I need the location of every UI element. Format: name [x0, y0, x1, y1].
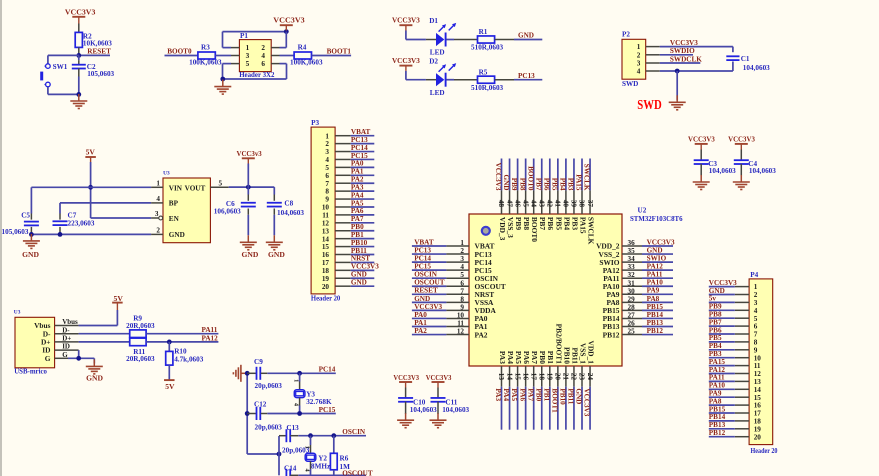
svg-text:510R,0603: 510R,0603: [471, 44, 504, 52]
svg-text:PB12: PB12: [709, 429, 726, 437]
svg-text:1: 1: [293, 379, 300, 382]
svg-text:46: 46: [513, 200, 521, 208]
svg-text:20R,0603: 20R,0603: [126, 355, 155, 363]
svg-text:36: 36: [628, 239, 636, 247]
svg-text:C10: C10: [413, 398, 426, 406]
svg-text:19: 19: [322, 275, 330, 283]
svg-text:104,0603: 104,0603: [442, 406, 469, 414]
svg-text:D+: D+: [62, 335, 71, 343]
svg-text:OSCOUT: OSCOUT: [342, 470, 373, 476]
svg-text:C11: C11: [445, 398, 457, 406]
svg-text:3: 3: [246, 52, 250, 60]
svg-text:19: 19: [754, 425, 762, 433]
svg-text:PB4: PB4: [559, 178, 567, 191]
svg-text:26: 26: [628, 320, 636, 328]
svg-text:VCC3v3: VCC3v3: [237, 149, 262, 158]
svg-text:PA6: PA6: [351, 207, 364, 215]
svg-text:VCC3V3: VCC3V3: [392, 56, 420, 65]
svg-text:4: 4: [303, 469, 310, 472]
svg-text:PA10: PA10: [709, 382, 726, 390]
svg-text:16: 16: [322, 251, 330, 259]
svg-text:15: 15: [754, 394, 762, 402]
svg-text:PB9: PB9: [709, 303, 722, 311]
svg-text:40: 40: [562, 200, 570, 208]
svg-text:19: 19: [546, 373, 554, 381]
svg-text:PB13: PB13: [647, 319, 664, 327]
svg-text:PA2: PA2: [351, 176, 364, 184]
svg-text:18: 18: [754, 418, 762, 426]
svg-text:PA7: PA7: [526, 388, 534, 401]
svg-text:VCC3V3: VCC3V3: [494, 163, 502, 191]
svg-text:PB5: PB5: [554, 217, 563, 230]
svg-text:PA11: PA11: [647, 271, 663, 279]
svg-text:PA8: PA8: [647, 295, 660, 303]
svg-text:5: 5: [219, 180, 223, 188]
svg-text:RESET: RESET: [87, 47, 111, 55]
svg-text:5: 5: [754, 315, 758, 323]
svg-text:41: 41: [554, 200, 562, 208]
svg-text:VCC3V3: VCC3V3: [273, 16, 305, 25]
svg-text:5V: 5V: [165, 382, 175, 391]
svg-text:8: 8: [754, 339, 758, 347]
svg-text:38: 38: [578, 200, 586, 208]
svg-text:GND: GND: [242, 250, 259, 259]
svg-text:44: 44: [529, 200, 537, 208]
svg-text:14: 14: [754, 386, 762, 394]
svg-text:VCC3V3: VCC3V3: [426, 373, 452, 382]
svg-text:17: 17: [754, 410, 762, 418]
svg-text:PB15: PB15: [709, 405, 726, 413]
svg-text:4: 4: [156, 195, 160, 203]
svg-text:17: 17: [529, 373, 537, 381]
svg-text:ID: ID: [62, 343, 70, 351]
svg-text:SWCLK: SWCLK: [583, 164, 591, 191]
svg-text:U3: U3: [14, 310, 21, 316]
svg-text:4: 4: [754, 307, 758, 315]
svg-text:C12: C12: [254, 400, 267, 408]
svg-text:3: 3: [754, 299, 758, 307]
svg-text:10: 10: [754, 354, 762, 362]
svg-text:P4: P4: [750, 271, 758, 279]
svg-text:104,0603: 104,0603: [743, 64, 770, 72]
svg-text:PB14: PB14: [709, 413, 726, 421]
svg-text:2: 2: [754, 291, 758, 299]
svg-text:PB0: PB0: [538, 351, 547, 364]
svg-text:GND: GND: [518, 32, 534, 40]
svg-text:OSCIN: OSCIN: [342, 428, 366, 436]
svg-text:GND: GND: [169, 231, 185, 239]
svg-text:BOOT0: BOOT0: [167, 48, 192, 56]
svg-text:SWD: SWD: [637, 98, 662, 113]
svg-text:VCC3V3: VCC3V3: [670, 39, 698, 47]
svg-text:PA3: PA3: [494, 388, 502, 401]
svg-text:GND: GND: [502, 175, 510, 191]
svg-text:NRST: NRST: [351, 255, 370, 263]
svg-text:VCC3V3: VCC3V3: [65, 7, 96, 16]
svg-text:PA12: PA12: [202, 334, 219, 342]
svg-text:104,0603: 104,0603: [410, 406, 437, 414]
svg-text:C1: C1: [741, 55, 750, 63]
svg-text:PB3: PB3: [709, 350, 722, 358]
svg-text:Header 3X2: Header 3X2: [239, 71, 275, 79]
svg-text:P2: P2: [622, 31, 630, 39]
svg-text:PB14: PB14: [647, 311, 664, 319]
svg-text:PB7: PB7: [538, 217, 547, 230]
svg-text:PB0: PB0: [351, 223, 364, 231]
svg-text:Header 20: Header 20: [311, 294, 341, 302]
svg-text:PA0: PA0: [351, 160, 364, 168]
svg-text:5V: 5V: [86, 148, 96, 157]
svg-text:PA4: PA4: [502, 388, 510, 401]
svg-text:PA15: PA15: [578, 217, 587, 234]
svg-text:SWDCLK: SWDCLK: [670, 55, 702, 63]
svg-text:C8: C8: [284, 200, 293, 208]
svg-text:16: 16: [521, 373, 529, 381]
svg-text:10: 10: [322, 204, 330, 212]
svg-text:47: 47: [505, 200, 513, 208]
svg-text:13: 13: [322, 227, 330, 235]
svg-text:PB12: PB12: [603, 330, 620, 339]
svg-text:VDD_3: VDD_3: [498, 217, 507, 241]
svg-text:20p,0603: 20p,0603: [255, 424, 283, 432]
svg-text:PB8: PB8: [518, 178, 526, 191]
svg-text:VCC3V3: VCC3V3: [351, 263, 379, 271]
svg-text:13: 13: [754, 378, 762, 386]
svg-text:5: 5: [460, 271, 464, 279]
svg-text:D1: D1: [429, 17, 438, 25]
svg-text:PA5: PA5: [514, 351, 523, 364]
svg-text:PB6: PB6: [546, 217, 555, 230]
svg-text:PA12: PA12: [709, 366, 726, 374]
svg-text:LED: LED: [430, 89, 445, 97]
svg-text:30: 30: [628, 287, 636, 295]
svg-text:BP: BP: [169, 200, 179, 208]
svg-text:4.7k,0603: 4.7k,0603: [174, 355, 204, 363]
svg-text:VCC3V3: VCC3V3: [647, 238, 675, 246]
svg-text:4: 4: [460, 263, 464, 271]
svg-text:PB5: PB5: [709, 334, 722, 342]
svg-text:PB10: PB10: [351, 239, 368, 247]
svg-text:R6: R6: [340, 454, 349, 462]
svg-text:PB10: PB10: [562, 347, 571, 364]
svg-text:25: 25: [628, 328, 636, 336]
svg-text:PA7: PA7: [530, 351, 539, 364]
svg-text:PA6: PA6: [522, 351, 531, 364]
svg-text:EN: EN: [169, 215, 180, 223]
svg-text:PB1: PB1: [542, 388, 550, 401]
svg-text:5V: 5V: [114, 294, 124, 303]
svg-text:45: 45: [521, 200, 529, 208]
svg-text:PB11: PB11: [567, 388, 575, 404]
svg-text:PA3: PA3: [351, 183, 364, 191]
svg-text:PA4: PA4: [506, 351, 515, 364]
svg-text:1: 1: [637, 43, 641, 51]
svg-text:D2: D2: [429, 57, 438, 65]
svg-text:SW1: SW1: [53, 63, 68, 71]
svg-text:C5: C5: [21, 212, 30, 220]
svg-text:20: 20: [754, 433, 762, 441]
svg-text:510R,0603: 510R,0603: [471, 84, 504, 92]
svg-text:VCC3V3: VCC3V3: [709, 279, 737, 287]
svg-text:PB2/BOOT1: PB2/BOOT1: [554, 324, 563, 365]
svg-text:5: 5: [246, 60, 250, 68]
svg-text:R1: R1: [479, 28, 488, 36]
svg-text:PB4: PB4: [709, 342, 722, 350]
svg-text:33: 33: [628, 263, 636, 271]
svg-text:Header 20: Header 20: [751, 447, 778, 455]
svg-text:PB8: PB8: [709, 311, 722, 319]
svg-text:12: 12: [754, 370, 762, 378]
svg-text:GND: GND: [709, 287, 725, 295]
svg-text:GND: GND: [351, 271, 367, 279]
svg-text:7: 7: [754, 331, 758, 339]
svg-text:10K,0603: 10K,0603: [83, 39, 112, 47]
svg-text:PA8: PA8: [709, 397, 722, 405]
svg-text:21: 21: [562, 373, 570, 381]
svg-text:6: 6: [460, 279, 464, 287]
svg-text:PB4: PB4: [562, 217, 571, 230]
svg-text:C9: C9: [254, 358, 263, 366]
svg-text:Y2: Y2: [318, 454, 327, 462]
svg-text:100K,0603: 100K,0603: [189, 59, 222, 67]
svg-text:12: 12: [457, 328, 465, 336]
svg-text:20: 20: [554, 373, 562, 381]
svg-text:PC14: PC14: [319, 366, 336, 374]
svg-text:23: 23: [578, 373, 586, 381]
svg-text:20: 20: [322, 283, 330, 291]
svg-text:1: 1: [325, 132, 329, 140]
svg-text:R4: R4: [298, 43, 307, 51]
svg-text:18: 18: [537, 373, 545, 381]
svg-text:LED: LED: [430, 49, 445, 57]
svg-text:VBAT: VBAT: [351, 128, 371, 136]
svg-text:PA7: PA7: [351, 215, 364, 223]
svg-text:PA6: PA6: [518, 388, 526, 401]
svg-text:105,0603: 105,0603: [2, 228, 29, 236]
svg-text:PB15: PB15: [647, 303, 664, 311]
svg-text:104,0603: 104,0603: [277, 209, 304, 217]
svg-text:PB9: PB9: [514, 217, 523, 230]
svg-text:PA4: PA4: [351, 191, 364, 199]
svg-text:VDD_1: VDD_1: [586, 340, 595, 364]
svg-text:104,0603: 104,0603: [749, 167, 776, 175]
svg-text:PB1: PB1: [546, 351, 555, 364]
svg-text:PA15: PA15: [709, 358, 726, 366]
svg-text:BOOT1: BOOT1: [550, 388, 558, 413]
svg-text:C7: C7: [68, 212, 77, 220]
svg-text:11: 11: [322, 212, 329, 220]
svg-text:15: 15: [322, 243, 330, 251]
svg-text:2: 2: [156, 227, 160, 235]
svg-text:223,0603: 223,0603: [68, 220, 95, 228]
svg-text:2: 2: [261, 44, 265, 52]
svg-text:6: 6: [754, 323, 758, 331]
svg-text:1: 1: [303, 446, 310, 449]
svg-text:D-: D-: [62, 326, 70, 334]
svg-text:4: 4: [325, 156, 329, 164]
svg-text:105,0603: 105,0603: [87, 70, 114, 78]
svg-text:43: 43: [537, 200, 545, 208]
svg-text:PB11: PB11: [570, 347, 579, 364]
svg-text:PB13: PB13: [709, 421, 726, 429]
svg-text:PC13: PC13: [351, 136, 368, 144]
svg-text:PB0: PB0: [534, 388, 542, 401]
svg-text:35: 35: [628, 247, 636, 255]
svg-text:106,0603: 106,0603: [214, 208, 241, 216]
svg-text:SWCLK: SWCLK: [586, 217, 595, 245]
svg-text:11: 11: [457, 320, 464, 328]
svg-text:9: 9: [325, 196, 329, 204]
svg-text:13: 13: [497, 373, 505, 381]
svg-text:14: 14: [505, 373, 513, 381]
svg-text:4: 4: [261, 52, 265, 60]
svg-text:8: 8: [325, 188, 329, 196]
svg-text:PB7: PB7: [709, 318, 722, 326]
svg-text:PC15: PC15: [351, 152, 368, 160]
svg-text:29: 29: [628, 295, 636, 303]
svg-text:1: 1: [246, 44, 250, 52]
svg-text:G: G: [45, 354, 51, 363]
svg-text:VSS_1: VSS_1: [578, 343, 587, 364]
svg-text:PB11: PB11: [351, 247, 367, 255]
svg-text:9: 9: [754, 346, 758, 354]
svg-text:VCC3V3: VCC3V3: [392, 15, 420, 24]
svg-text:PA5: PA5: [510, 388, 518, 401]
svg-text:U3: U3: [163, 171, 170, 177]
svg-text:GND: GND: [86, 373, 103, 382]
svg-text:PB10: PB10: [559, 388, 567, 405]
svg-text:28: 28: [628, 303, 636, 311]
svg-text:PB3: PB3: [570, 217, 579, 230]
svg-text:VCC3V3: VCC3V3: [728, 134, 755, 143]
svg-text:2: 2: [460, 247, 464, 255]
svg-text:1: 1: [460, 239, 464, 247]
svg-text:PC13: PC13: [518, 72, 535, 80]
svg-text:1: 1: [754, 283, 758, 291]
svg-text:Y3: Y3: [306, 390, 315, 398]
svg-text:USB-mrico: USB-mrico: [14, 368, 47, 376]
svg-text:Vbus: Vbus: [62, 318, 78, 326]
svg-text:PA11: PA11: [202, 326, 218, 334]
svg-text:24: 24: [586, 373, 594, 381]
svg-text:2: 2: [637, 51, 641, 59]
svg-text:22: 22: [570, 373, 578, 381]
svg-text:PB5: PB5: [550, 178, 558, 191]
svg-text:PB6: PB6: [709, 326, 722, 334]
svg-text:U2: U2: [638, 207, 647, 215]
svg-text:PB12: PB12: [647, 327, 664, 335]
svg-text:39: 39: [570, 200, 578, 208]
svg-text:GND: GND: [351, 278, 367, 286]
svg-text:R3: R3: [201, 43, 210, 51]
svg-text:PA15: PA15: [575, 174, 583, 191]
svg-text:PA10: PA10: [647, 279, 664, 287]
svg-text:PB1: PB1: [351, 231, 364, 239]
svg-text:R5: R5: [479, 68, 488, 76]
svg-text:11: 11: [754, 362, 761, 370]
svg-text:42: 42: [546, 200, 554, 208]
svg-text:5v: 5v: [709, 295, 717, 303]
svg-text:PA9: PA9: [647, 287, 660, 295]
svg-text:9: 9: [460, 303, 464, 311]
svg-text:4: 4: [293, 403, 300, 406]
svg-text:PA5: PA5: [351, 199, 364, 207]
svg-text:SWD: SWD: [622, 80, 638, 88]
svg-text:PB6: PB6: [542, 178, 550, 191]
svg-text:3: 3: [460, 255, 464, 263]
svg-text:4: 4: [637, 68, 641, 76]
svg-text:6: 6: [325, 172, 329, 180]
svg-text:VCC3V3: VCC3V3: [393, 373, 419, 382]
svg-text:7: 7: [325, 180, 329, 188]
svg-text:GND: GND: [647, 246, 663, 254]
svg-text:VCC3V3: VCC3V3: [583, 388, 591, 416]
svg-text:3: 3: [325, 148, 329, 156]
svg-text:PB9: PB9: [510, 178, 518, 191]
svg-text:2: 2: [325, 140, 329, 148]
svg-text:PB7: PB7: [534, 178, 542, 191]
svg-text:GND: GND: [575, 388, 583, 404]
svg-text:37: 37: [586, 200, 594, 208]
svg-text:PC15: PC15: [319, 406, 336, 414]
svg-text:1: 1: [156, 180, 160, 188]
svg-text:14: 14: [322, 235, 330, 243]
svg-text:16: 16: [754, 402, 762, 410]
svg-text:BOOT0: BOOT0: [526, 166, 534, 191]
svg-text:3: 3: [637, 60, 641, 68]
svg-text:10: 10: [457, 311, 465, 319]
svg-text:PA9: PA9: [709, 390, 722, 398]
svg-text:VSS_3: VSS_3: [506, 217, 515, 238]
svg-text:PA1: PA1: [351, 168, 364, 176]
svg-text:GND: GND: [22, 250, 39, 259]
svg-text:31: 31: [628, 279, 636, 287]
svg-text:VOUT: VOUT: [185, 184, 206, 192]
svg-text:PA12: PA12: [647, 263, 664, 271]
svg-text:SWIO: SWIO: [647, 255, 667, 263]
svg-text:PC14: PC14: [351, 144, 368, 152]
svg-text:20R,0603: 20R,0603: [126, 322, 155, 330]
svg-text:7: 7: [460, 287, 464, 295]
svg-text:VCC3V3: VCC3V3: [688, 134, 715, 143]
svg-text:P1: P1: [240, 32, 248, 40]
svg-text:BOOT0: BOOT0: [530, 217, 539, 242]
svg-text:SWDIO: SWDIO: [670, 47, 695, 55]
svg-text:VIN: VIN: [169, 184, 183, 192]
svg-text:P3: P3: [311, 119, 319, 127]
svg-text:BOOT1: BOOT1: [327, 48, 352, 56]
svg-text:17: 17: [322, 259, 330, 267]
svg-text:STM32F103C8T6: STM32F103C8T6: [630, 215, 683, 223]
svg-text:PB3: PB3: [567, 178, 575, 191]
svg-text:G: G: [62, 351, 68, 359]
svg-text:PA11: PA11: [709, 374, 725, 382]
svg-text:15: 15: [513, 373, 521, 381]
svg-text:20p,0603: 20p,0603: [255, 382, 283, 390]
svg-text:6: 6: [261, 60, 265, 68]
svg-text:8MHz: 8MHz: [311, 463, 331, 471]
svg-text:12: 12: [322, 219, 330, 227]
svg-text:100K,0603: 100K,0603: [290, 59, 323, 67]
svg-text:8: 8: [460, 295, 464, 303]
svg-text:PA2: PA2: [475, 330, 488, 339]
svg-text:48: 48: [497, 200, 505, 208]
svg-text:R10: R10: [174, 347, 187, 355]
svg-text:18: 18: [322, 267, 330, 275]
svg-text:27: 27: [628, 311, 636, 319]
svg-text:PB8: PB8: [522, 217, 531, 230]
svg-text:C13: C13: [286, 424, 299, 432]
